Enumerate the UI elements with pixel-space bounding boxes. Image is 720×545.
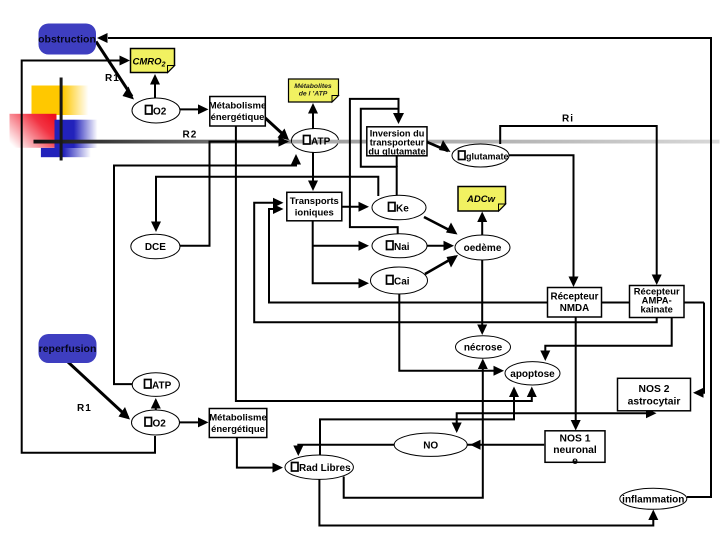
wire oedeme to ADCw	[481, 214, 483, 235]
wire Inversion bottom stub	[396, 156, 398, 167]
wire Cai to oedeme diagonal	[425, 257, 456, 275]
wire O2bottom loop to CMRO2	[22, 61, 155, 453]
svg-text:énergétique: énergétique	[211, 112, 265, 123]
arrowhead RadLibres to necrose	[478, 359, 488, 370]
arrowhead into NO top	[452, 423, 462, 434]
arrowhead O2top to CMRO2	[150, 74, 160, 85]
arrowhead Ri into AMPA	[652, 275, 662, 286]
svg-text:neuronal: neuronal	[553, 445, 597, 456]
wire Metabolisme top to apoptose	[236, 127, 532, 402]
wire Rad Libres to inflammation	[319, 479, 653, 525]
ellipse glutamate	[452, 144, 509, 167]
ellipse inflammation	[620, 488, 687, 509]
ellipse ATP bottom	[132, 373, 179, 397]
arrowhead O2bottom to Metabolisme bottom	[198, 417, 209, 427]
ellipse DCE	[131, 234, 180, 259]
arrowhead oedeme to ADCw	[477, 212, 487, 223]
arrowhead RadLibres line into apoptose	[509, 387, 519, 398]
box Metabolisme energetique bottom	[209, 409, 267, 438]
wire Transports to Nai and Cai	[313, 221, 366, 283]
wire obstruction to O2top diagonal R1	[96, 42, 132, 97]
svg-text:O2: O2	[153, 419, 167, 430]
svg-text:ioniques: ioniques	[295, 208, 334, 219]
arrowhead reperfusion diagonal into O2bottom	[119, 407, 131, 420]
svg-text:astrocytair: astrocytair	[628, 397, 681, 408]
svg-text:NMDA: NMDA	[560, 303, 589, 314]
arrowhead into NOS2 bottom area	[646, 408, 657, 418]
arrowhead Inversion to glutamate	[439, 140, 451, 152]
wire O2bottom to ATPbottom	[155, 400, 157, 410]
logo blue tab	[41, 148, 91, 157]
arrowhead NO line into RadLibres top	[293, 446, 303, 457]
svg-text:Métabolisme: Métabolisme	[209, 413, 267, 424]
wire O2top to Metabolisme	[180, 108, 205, 110]
svg-text:Ke: Ke	[396, 204, 409, 215]
arrowhead Ke line into DCE	[151, 222, 161, 233]
wire O2bottom to Metabolisme bottom	[180, 421, 206, 423]
wire glutamate Ri to AMPA	[500, 126, 657, 277]
svg-text:Métabolisme: Métabolisme	[209, 101, 267, 112]
svg-text:énergétique: énergétique	[211, 424, 265, 435]
note Metabolites de l ATP	[289, 79, 339, 102]
ellipse O2 bottom	[132, 410, 180, 435]
ellipse Ke	[372, 195, 426, 220]
svg-text:de l ’ATP: de l ’ATP	[299, 91, 328, 98]
arrowhead oedeme to necrose	[477, 325, 487, 336]
svg-text:Rad Libres: Rad Libres	[299, 463, 351, 474]
wire reperfusion to O2bottom diagonal R1	[68, 362, 128, 418]
box Recepteur NMDA	[548, 288, 602, 318]
svg-text:glutamate: glutamate	[466, 152, 509, 162]
arrowhead into Rad Libres left	[273, 463, 284, 473]
wire Transports to Ke	[342, 206, 366, 208]
wire Rad Libres to necrose	[344, 361, 483, 498]
logo vertical line	[60, 78, 63, 161]
wire receptors row to Transports	[269, 209, 704, 303]
svg-text:CMRO2: CMRO2	[133, 57, 166, 69]
wire Inversion to glutamate diagonal	[427, 142, 448, 151]
arrowhead Cai line into apoptose	[494, 366, 505, 376]
ellipse Cai	[371, 267, 428, 294]
svg-text:NOS 2: NOS 2	[639, 384, 670, 395]
wire Nai to Inversion	[350, 99, 399, 234]
arrowhead AMPA line into apoptose top	[540, 351, 550, 362]
arrowhead ATPtop to Metabolites	[308, 103, 318, 114]
arrowhead receptors line into Transports lower	[273, 204, 284, 214]
svg-text:Nai: Nai	[394, 242, 410, 253]
ellipse NO	[394, 433, 467, 456]
svg-text:ADCw: ADCw	[466, 194, 496, 205]
wire inflammation to obstruction	[108, 38, 711, 497]
ellipse ATP top with gray line over	[292, 129, 340, 153]
svg-text:NOS 1: NOS 1	[560, 434, 591, 445]
wire ATPbottom to ATPtop	[114, 156, 296, 384]
wire Ke to DCE	[156, 177, 378, 229]
node obstruction	[38, 24, 96, 55]
wire oedeme to necrose	[481, 260, 483, 332]
arrowhead Transports to Cai	[359, 278, 370, 288]
svg-text:Ri: Ri	[562, 114, 574, 125]
svg-text:reperfusion: reperfusion	[39, 343, 97, 355]
ellipse Rad Libres	[285, 455, 353, 479]
box NOS 2 astrocytair	[618, 378, 691, 411]
svg-text:kainate: kainate	[641, 304, 673, 315]
svg-text:obstruction: obstruction	[38, 34, 96, 46]
arrowhead into NOS2 right	[693, 388, 704, 398]
svg-text:R2: R2	[183, 130, 198, 141]
ellipse Nai	[372, 234, 427, 258]
wire AMPA right to NOS2	[696, 303, 704, 393]
node reperfusion	[39, 334, 97, 363]
arrowhead O2bottom to ATPbottom	[151, 398, 161, 409]
arrowhead Transports to Ke	[359, 202, 370, 212]
wire Metabolisme to ATPtop diagonal	[263, 116, 286, 137]
arrowhead Nai to oedeme	[444, 241, 455, 251]
svg-text:du glutamate: du glutamate	[368, 147, 425, 157]
wire Nai to oedeme	[427, 245, 451, 247]
wire NMDA to NOS1	[575, 317, 577, 428]
svg-text:O2: O2	[153, 107, 167, 118]
ellipse oedeme	[455, 235, 510, 260]
svg-text:oedème: oedème	[464, 243, 502, 254]
arrowhead glutamate into NMDA	[569, 277, 579, 288]
wire Rad Libres to apoptose	[320, 389, 514, 456]
arrowhead into CMRO2 from left	[120, 56, 131, 66]
arrowhead into O2top diagonal	[123, 87, 135, 100]
box Transports ioniques	[287, 192, 342, 221]
wire AMPA bottom to Transports	[254, 203, 657, 323]
svg-text:R1: R1	[77, 403, 92, 414]
arrowhead Metabolisme to ATPtop	[278, 129, 290, 141]
svg-text:R1: R1	[105, 73, 120, 84]
svg-text:DCE: DCE	[145, 242, 166, 253]
arrowhead Ke to oedeme	[446, 223, 458, 235]
wire AMPA to apoptose top	[545, 318, 671, 358]
arrowhead into obstruction	[97, 33, 108, 43]
ellipse apoptose	[505, 362, 560, 385]
box Inversion du transporteur	[367, 127, 427, 157]
arrowhead Cai to oedeme	[447, 255, 459, 268]
arrowhead ATPtop to Transports	[308, 181, 318, 192]
wire NO NOS2 line	[457, 413, 646, 431]
arrowhead NOS1 into NO right	[470, 440, 481, 450]
wire ATPtop to Metabolites note	[312, 105, 314, 129]
wire O2top to CMRO2	[154, 76, 156, 98]
svg-text:nécrose: nécrose	[464, 343, 503, 354]
svg-text:e: e	[572, 456, 578, 467]
gray template line	[34, 140, 720, 144]
wire Ke to oedeme diagonal	[424, 217, 455, 233]
wire DCE to ATPtop	[180, 142, 285, 246]
box Recepteur AMPA kainate	[630, 286, 685, 318]
arrowhead receptors line into Transports upper	[273, 198, 284, 208]
wire ATPtop to Transports	[312, 153, 314, 189]
svg-text:ATP: ATP	[311, 137, 331, 148]
arrowhead DCE line into ATPtop	[279, 137, 290, 147]
svg-text:Métabolites: Métabolites	[294, 83, 332, 90]
svg-text:Récepteur: Récepteur	[551, 292, 599, 303]
svg-text:NO: NO	[423, 441, 438, 452]
arrowhead Nai line into Inversion	[393, 113, 404, 124]
arrowhead Transports to Nai	[359, 241, 370, 251]
arrowhead RadLibres to inflammation	[648, 510, 658, 521]
note ADCw	[458, 187, 506, 212]
box NOS 1 neuronal e	[545, 431, 605, 467]
ellipse O2 top	[132, 98, 180, 123]
svg-text:ATP: ATP	[152, 381, 172, 392]
wire Ke to Inversion	[361, 109, 398, 196]
wire Cai to apoptose	[399, 295, 501, 371]
svg-text:inflammation: inflammation	[622, 495, 684, 506]
note CMRO2	[131, 49, 175, 73]
logo blue block	[55, 120, 98, 148]
svg-text:Cai: Cai	[394, 277, 410, 288]
arrowhead ATPbottom line into ATPtop	[291, 154, 301, 165]
arrowhead O2top to Metabolisme	[198, 104, 209, 114]
wire NOS1 to NO to RadLibres	[298, 445, 544, 453]
svg-text:Transports: Transports	[290, 196, 339, 207]
arrowhead Metab top line into apoptose	[527, 387, 537, 398]
wire glutamate to NMDA	[509, 155, 574, 279]
ellipse necrose	[456, 336, 511, 358]
svg-text:apoptose: apoptose	[510, 369, 555, 380]
logo yellow block	[32, 86, 89, 116]
arrowhead NMDA into NOS1	[571, 420, 581, 431]
box Metabolisme energetique top	[209, 97, 267, 127]
logo red block	[10, 114, 57, 148]
wire Metabolisme bottom to Rad Libres	[237, 438, 279, 468]
